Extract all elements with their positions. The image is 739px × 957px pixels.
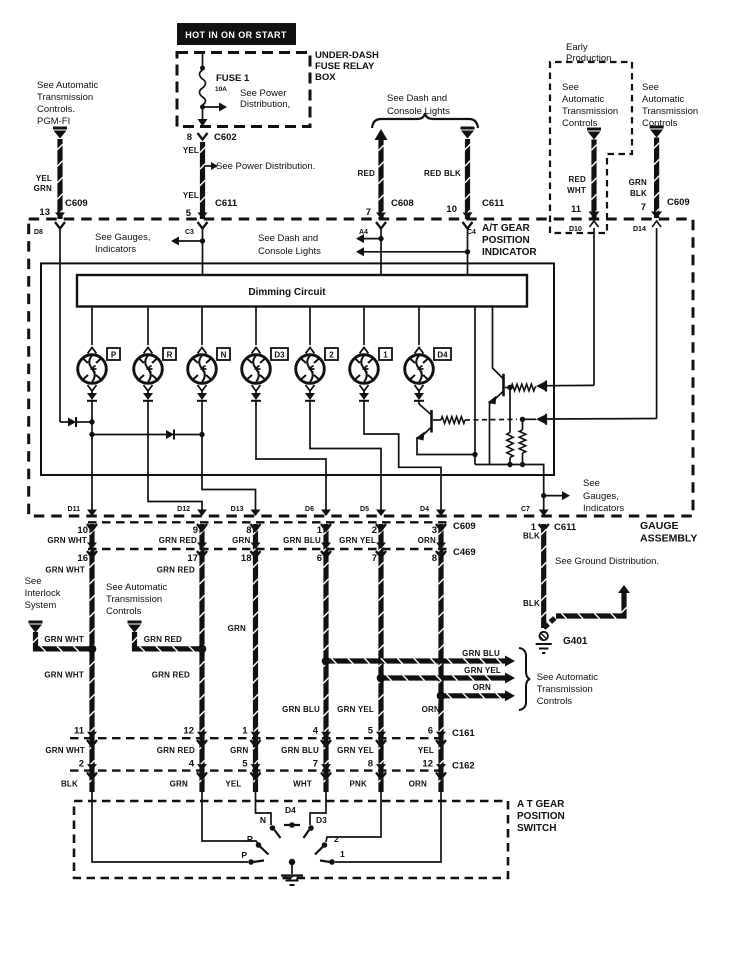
junction fuse top (200, 66, 205, 71)
connector crossing at x=202.5 (198, 213, 208, 220)
junction GRN BLU stub (322, 657, 331, 666)
svg-text:D12: D12 (177, 506, 190, 513)
svg-text:17: 17 (187, 553, 198, 564)
svg-text:Dimming Circuit: Dimming Circuit (248, 287, 326, 298)
lamp D4 (405, 355, 434, 384)
svg-text:13: 13 (39, 207, 50, 218)
Q1 emitter arrow (488, 396, 497, 405)
connector C469 pin 6 (321, 551, 331, 558)
connector crossing D14 (651, 212, 662, 219)
svg-text:Automatic: Automatic (642, 94, 684, 105)
wire lamp R to D12 (148, 401, 202, 515)
wire YEL vertical (200, 142, 205, 219)
early production dashed box (550, 62, 632, 233)
diode D-left1 (68, 418, 76, 427)
wire Q1 emitter run (490, 402, 492, 465)
svg-text:GRN YEL: GRN YEL (337, 705, 374, 714)
svg-text:Transmission: Transmission (562, 106, 618, 117)
wire PNK to 2 contact (326, 792, 381, 842)
junction C7 branch (541, 493, 546, 498)
wire lamp 1 to D4 pin (364, 401, 441, 515)
wire Q2 base (433, 419, 441, 421)
svg-text:GRN WHT: GRN WHT (44, 671, 84, 680)
connector C162 chevron (321, 772, 331, 779)
svg-text:1: 1 (340, 849, 345, 859)
svg-text:7: 7 (641, 202, 646, 213)
wire column x=381 (378, 524, 383, 792)
svg-text:P: P (241, 850, 247, 860)
svg-text:2: 2 (334, 834, 339, 844)
wire lamp 2 to D5 (310, 401, 381, 515)
svg-text:GRN: GRN (629, 178, 647, 187)
diode D14 input (536, 415, 545, 424)
connector arrow C469 (197, 543, 207, 550)
junction col1 interlock (88, 645, 97, 654)
resistor Q2 base (441, 417, 465, 424)
switch contact 1 (329, 859, 335, 865)
svg-text:GRN WHT: GRN WHT (44, 635, 84, 644)
svg-text:HOT IN ON OR START: HOT IN ON OR START (185, 30, 287, 40)
svg-text:See: See (25, 576, 42, 587)
wire Q1 collector feed (492, 307, 494, 367)
svg-text:YEL: YEL (418, 746, 434, 755)
arrow GRN YEL (505, 673, 515, 684)
wire WHT to D3 contact (310, 792, 326, 825)
svg-text:N: N (221, 351, 227, 360)
svg-text:RED: RED (569, 175, 587, 184)
wire RED BLK vertical (465, 139, 470, 219)
A/T gear position switch box (74, 801, 508, 878)
connector C609 pin 3 (436, 524, 446, 531)
wire to see dash arrow 1 (364, 238, 381, 240)
junction Q2 emitter to 475 (472, 452, 477, 457)
svg-text:4: 4 (189, 759, 195, 770)
svg-text:12: 12 (422, 759, 433, 770)
brace dash console (372, 113, 478, 128)
wire pin5 internal vertical (202, 228, 204, 275)
switch contact P (248, 859, 254, 865)
svg-text:YEL: YEL (183, 146, 199, 155)
svg-text:GRN WHT: GRN WHT (47, 536, 87, 545)
svg-text:INDICATOR: INDICATOR (482, 247, 537, 258)
svg-text:YEL: YEL (36, 174, 52, 183)
svg-text:D10: D10 (569, 226, 582, 233)
svg-text:5: 5 (368, 726, 374, 737)
connector C162 chevron (197, 772, 207, 779)
connector arrow C7 (539, 510, 549, 517)
junction ORN stub (437, 692, 446, 701)
svg-text:D3: D3 (274, 351, 285, 360)
wire D10 horizontal (547, 384, 594, 386)
connector crossing D10 (589, 212, 600, 219)
connector C161 chevron (321, 740, 331, 747)
svg-text:D5: D5 (360, 506, 369, 513)
wire to see dash arrow 2 (364, 251, 468, 253)
source arrow GRN BLK (650, 126, 664, 129)
svg-text:5: 5 (186, 208, 192, 219)
source arrow GRN RED stub (128, 621, 142, 624)
connector C162 chevron (436, 772, 446, 779)
wire D14 horizontal (547, 418, 657, 421)
svg-text:D13: D13 (231, 506, 244, 513)
svg-text:See Dash and: See Dash and (387, 93, 447, 104)
svg-text:R: R (247, 834, 253, 844)
wire RED WHT vertical (591, 140, 596, 219)
svg-text:D6: D6 (305, 506, 314, 513)
wire pin7 internal vertical (380, 228, 382, 275)
wire lamp feed x=310 (309, 307, 311, 346)
wire Q2 emitter run (417, 438, 475, 455)
resistor R3 (507, 433, 513, 458)
wire YEL to N contact (256, 792, 272, 825)
svg-text:7: 7 (372, 553, 377, 564)
switch pivot and ground (289, 859, 295, 865)
svg-text:System: System (25, 600, 57, 611)
svg-text:C609: C609 (65, 198, 88, 209)
svg-text:R: R (167, 351, 173, 360)
svg-text:D11: D11 (68, 506, 81, 513)
svg-text:C609: C609 (453, 521, 476, 532)
wire ORN to 1 contact (335, 792, 441, 862)
svg-text:3: 3 (432, 525, 437, 536)
lamp P (78, 355, 107, 384)
wire GRN to R contact (202, 792, 258, 843)
wire resistor R3 top (509, 388, 511, 433)
svg-text:Distribution,: Distribution, (240, 99, 290, 110)
wire to C7 (475, 465, 544, 512)
svg-text:GRN WHT: GRN WHT (45, 566, 85, 575)
wire to D10 diode (535, 387, 536, 388)
wire interlock stub (36, 632, 93, 649)
wire lamp feed x=92 (91, 307, 93, 346)
wire fuse output (202, 105, 204, 119)
wire pin13 internal vertical (59, 228, 61, 422)
svg-text:FUSE RELAY: FUSE RELAY (315, 61, 375, 72)
wire D10 vertical (593, 228, 595, 385)
wire Q1 base (505, 387, 511, 389)
wire GRN RED stub (135, 632, 203, 649)
svg-text:10: 10 (77, 525, 88, 536)
wire ORN stub (441, 693, 505, 698)
brace automatic transmission controls (519, 648, 530, 710)
svg-text:1: 1 (317, 525, 323, 536)
svg-text:2: 2 (79, 759, 84, 770)
junction pin7 branch (378, 236, 383, 241)
wire left branch to diode 1 (60, 421, 68, 423)
lamp N (188, 355, 217, 384)
junction R4 bottom (520, 462, 525, 467)
svg-text:RED: RED (358, 169, 376, 178)
wire BLK vertical (541, 524, 546, 628)
svg-text:GRN RED: GRN RED (157, 746, 195, 755)
wire lamp feed x=419 (418, 307, 420, 346)
switch contact D3 (308, 825, 314, 831)
svg-text:See: See (642, 82, 659, 93)
wire RED vertical (378, 140, 383, 219)
svg-text:8: 8 (368, 759, 373, 770)
svg-text:See Dash and: See Dash and (258, 233, 318, 244)
junction fuse bottom (200, 105, 205, 110)
wire fuse feed (202, 53, 204, 69)
connector crossing at x=381 (376, 213, 386, 220)
svg-text:8: 8 (246, 525, 251, 536)
dimming circuit box (77, 275, 527, 307)
wire diode2 to N column (174, 434, 202, 436)
wire column x=92 (89, 524, 94, 792)
svg-text:WHT: WHT (567, 186, 586, 195)
arrow to power distribution (219, 103, 227, 112)
connector line C609 bottom (88, 521, 450, 523)
wire BLK to P contact (92, 792, 248, 862)
svg-text:5: 5 (242, 759, 248, 770)
arrow fuse output down (198, 119, 208, 127)
wire lamp D4 to Q2 (418, 401, 420, 404)
svg-text:9: 9 (193, 525, 198, 536)
connector C162 chevron (251, 772, 261, 779)
svg-text:C161: C161 (452, 728, 475, 739)
wire lamp P to D11 (91, 401, 93, 515)
svg-text:See Gauges,: See Gauges, (95, 232, 150, 243)
connector C609 pin 9 (197, 524, 207, 531)
svg-text:18: 18 (241, 553, 252, 564)
svg-text:6: 6 (317, 553, 322, 564)
junction Q1 base resistor (507, 385, 512, 390)
svg-text:C3: C3 (185, 229, 194, 236)
svg-text:GRN RED: GRN RED (152, 671, 190, 680)
wire diode1 to P column (76, 421, 92, 423)
lamp D3 (242, 355, 271, 384)
svg-text:See Automatic: See Automatic (537, 672, 599, 683)
arrow see dash console 1 (356, 234, 364, 243)
svg-text:C469: C469 (453, 547, 476, 558)
svg-text:WHT: WHT (293, 780, 312, 789)
wire YEL GRN vertical (57, 139, 62, 219)
svg-text:GRN YEL: GRN YEL (337, 746, 374, 755)
svg-text:ORN: ORN (418, 536, 436, 545)
svg-text:A T GEAR: A T GEAR (517, 799, 565, 810)
junction N column (199, 432, 204, 437)
connector C469 pin 18 (251, 551, 261, 558)
svg-text:D14: D14 (633, 226, 646, 233)
wire to see gauges arrow (179, 240, 203, 242)
connector crossing at x=60 (55, 213, 65, 220)
junction col2 stub (198, 645, 207, 654)
svg-text:See: See (583, 478, 600, 489)
svg-text:GRN: GRN (230, 746, 248, 755)
switch contact D4 (284, 824, 300, 826)
connector C469 pin 17 (197, 551, 207, 558)
svg-text:See Automatic: See Automatic (106, 582, 168, 593)
switch contact R (256, 842, 262, 848)
arrow RED up (375, 129, 388, 140)
connector C162 chevron (87, 772, 97, 779)
switch contact N (270, 825, 276, 831)
arrow power distribution 2 (211, 162, 218, 170)
svg-text:C608: C608 (391, 198, 414, 209)
wire lamp feed x=148 (147, 307, 149, 346)
wire Q2 base dashed (465, 418, 517, 421)
svg-text:See Power: See Power (240, 88, 286, 99)
wire P to N horizontal (92, 434, 166, 436)
svg-text:ASSEMBLY: ASSEMBLY (640, 533, 697, 545)
wire branch see power distribution (203, 106, 220, 108)
transistor Q2 (430, 410, 433, 433)
connector arrow C469 (376, 543, 386, 550)
connector C469 pin 7 (376, 551, 386, 558)
connector line C469 (88, 548, 450, 550)
svg-text:Controls: Controls (106, 606, 142, 617)
wire branch power distribution 2 (204, 165, 211, 167)
svg-text:GRN: GRN (34, 184, 52, 193)
svg-text:RED BLK: RED BLK (424, 169, 461, 178)
svg-text:GRN RED: GRN RED (159, 536, 197, 545)
wire D14 vertical (656, 228, 658, 419)
svg-text:BLK: BLK (523, 532, 540, 541)
connector C609 pin 1 (321, 524, 331, 531)
resistor Q1 base (511, 384, 535, 391)
svg-text:See Ground Distribution.: See Ground Distribution. (555, 556, 659, 567)
svg-text:GRN BLU: GRN BLU (282, 705, 320, 714)
lamp R (134, 355, 163, 384)
svg-text:Transmission: Transmission (537, 684, 593, 695)
wire to D14 diode (523, 418, 537, 420)
svg-text:D8: D8 (34, 229, 43, 236)
wire resistor R4 bottom (522, 453, 524, 465)
svg-text:POSITION: POSITION (517, 811, 565, 822)
svg-text:Transmission: Transmission (106, 594, 162, 605)
hot in on or start box (177, 23, 296, 45)
junction Q2 base node (520, 417, 525, 422)
arrow ground distribution up (618, 585, 630, 593)
svg-text:Controls: Controls (537, 696, 573, 707)
svg-text:C162: C162 (452, 761, 475, 772)
arrow see gauges indicators (171, 237, 179, 246)
connector arrow C469 (321, 543, 331, 550)
svg-text:FUSE 1: FUSE 1 (216, 73, 250, 84)
wire column x=326 (323, 524, 328, 792)
svg-text:BOX: BOX (315, 72, 336, 83)
connector arrow C469 (87, 543, 97, 550)
svg-text:GRN YEL: GRN YEL (339, 536, 376, 545)
wire GRN YEL stub (381, 675, 505, 680)
svg-text:P: P (111, 351, 117, 360)
source arrow RED BLK (461, 127, 475, 130)
svg-text:BLK: BLK (523, 599, 540, 608)
svg-text:Production: Production (566, 53, 611, 64)
svg-text:D4: D4 (437, 351, 448, 360)
svg-text:G401: G401 (563, 636, 588, 647)
svg-text:Transmission: Transmission (642, 106, 698, 117)
connector line C162 (70, 769, 448, 771)
svg-text:2: 2 (329, 351, 334, 360)
arrow see gauges indicators bottom (562, 491, 570, 500)
lamp 1 (350, 355, 379, 384)
wire lamp D3 to D6 (256, 401, 326, 515)
svg-text:Interlock: Interlock (25, 588, 61, 599)
connector crossing at x=467.5 (463, 213, 473, 220)
svg-text:SWITCH: SWITCH (517, 823, 556, 834)
connector C469 pin 8 (436, 551, 446, 558)
svg-text:GRN: GRN (170, 780, 188, 789)
transistor Q1 (502, 374, 505, 397)
junction pin10 branch (465, 249, 470, 254)
svg-text:C609: C609 (667, 197, 690, 208)
svg-text:1: 1 (242, 726, 248, 737)
svg-text:11: 11 (571, 204, 582, 215)
svg-text:GRN WHT: GRN WHT (45, 746, 85, 755)
svg-text:See: See (562, 82, 579, 93)
svg-text:16: 16 (77, 553, 88, 564)
svg-text:Early: Early (566, 42, 588, 53)
svg-text:BLK: BLK (630, 189, 647, 198)
svg-text:PNK: PNK (350, 780, 368, 789)
source arrow YEL GRN (53, 127, 67, 130)
svg-text:ORN: ORN (473, 683, 491, 692)
svg-text:Console Lights: Console Lights (258, 246, 321, 257)
svg-text:12: 12 (183, 726, 194, 737)
svg-text:Console Lights: Console Lights (387, 106, 450, 117)
svg-text:7: 7 (366, 207, 371, 218)
svg-text:D4: D4 (285, 805, 296, 815)
junction pin5 branch (200, 238, 205, 243)
wire GRN BLU stub (326, 658, 505, 663)
svg-text:See Power Distribution.: See Power Distribution. (216, 161, 315, 172)
svg-text:6: 6 (428, 726, 433, 737)
under-dash fuse relay box (177, 53, 310, 127)
svg-text:GRN BLU: GRN BLU (462, 649, 500, 658)
connector C162 chevron (376, 772, 386, 779)
svg-text:C611: C611 (215, 198, 238, 209)
svg-text:GRN YEL: GRN YEL (464, 666, 501, 675)
svg-text:8: 8 (187, 132, 192, 143)
wire lamp feed x=202 (201, 307, 203, 346)
wire GRN BLK vertical (654, 138, 659, 219)
svg-text:POSITION: POSITION (482, 235, 530, 246)
source arrow RED WHT (587, 128, 601, 131)
wire column x=202 (199, 524, 204, 792)
svg-text:YEL: YEL (225, 780, 241, 789)
connector C609 pin 10 (87, 524, 97, 531)
connector C161 chevron (376, 740, 386, 747)
svg-text:UNDER-DASH: UNDER-DASH (315, 50, 379, 61)
svg-text:10: 10 (446, 204, 457, 215)
wire lamp feed x=256 (255, 307, 257, 346)
wire column x=441 (438, 524, 443, 792)
junction GRN YEL stub (377, 674, 386, 683)
connector arrow C469 (251, 543, 261, 550)
junction R3 bottom (507, 462, 512, 467)
svg-text:Indicators: Indicators (95, 244, 136, 255)
connector arrow C469 (436, 543, 446, 550)
svg-text:PGM-FI: PGM-FI (37, 116, 70, 127)
svg-text:D4: D4 (420, 506, 429, 513)
resistor R4 (519, 430, 525, 453)
svg-text:2: 2 (372, 525, 377, 536)
svg-text:GRN BLU: GRN BLU (281, 746, 319, 755)
svg-text:GAUGE: GAUGE (640, 520, 679, 532)
connector C609 pin 2 (376, 524, 386, 531)
svg-text:8: 8 (432, 553, 437, 564)
svg-text:ORN: ORN (409, 780, 427, 789)
wire column x=255.5 (253, 524, 258, 792)
svg-text:GRN RED: GRN RED (144, 635, 182, 644)
fuse F1 (200, 70, 206, 105)
junction P column 1 (89, 419, 94, 424)
arrow GRN BLU (505, 656, 515, 667)
wire resistor R3 bottom (509, 458, 511, 465)
connector C609 pin 8 (251, 524, 261, 531)
arrow see dash console 2 (356, 247, 364, 256)
